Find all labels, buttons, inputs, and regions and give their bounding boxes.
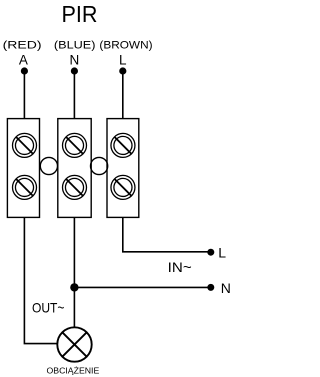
wire terminal 3 to L bbox=[123, 217, 210, 251]
wire A to terminal 1 bbox=[23, 71, 25, 119]
node N dot bbox=[71, 67, 78, 74]
svg-text:PIR: PIR bbox=[62, 1, 98, 27]
wire N to terminal 2 bbox=[73, 71, 75, 119]
wire N out bbox=[74, 286, 210, 288]
screw terminal 2 top bbox=[63, 133, 87, 157]
lamp load symbol bbox=[57, 327, 91, 361]
screw terminal 2 bottom bbox=[63, 175, 87, 199]
svg-text:A: A bbox=[19, 53, 28, 68]
wire terminal 2 down to lamp bbox=[73, 217, 75, 327]
screw terminal 1 bottom bbox=[13, 175, 37, 199]
svg-text:(BLUE): (BLUE) bbox=[54, 39, 96, 51]
terminal N dot bbox=[207, 284, 214, 291]
screw terminal 3 bottom bbox=[111, 175, 135, 199]
svg-text:N: N bbox=[221, 280, 231, 296]
svg-text:(RED): (RED) bbox=[3, 39, 42, 51]
wire terminal 1 to lamp bbox=[24, 217, 57, 343]
wire L to terminal 3 bbox=[122, 71, 124, 119]
strip hole left bbox=[40, 157, 57, 174]
svg-text:(BROWN): (BROWN) bbox=[99, 39, 152, 51]
junction dot N bbox=[70, 283, 78, 291]
svg-text:OUT~: OUT~ bbox=[32, 300, 65, 316]
node L dot bbox=[119, 67, 126, 74]
terminal block body 1 bbox=[7, 119, 39, 218]
terminal L dot bbox=[207, 249, 214, 256]
svg-text:N: N bbox=[70, 53, 80, 68]
svg-text:IN~: IN~ bbox=[168, 259, 192, 275]
svg-text:L: L bbox=[218, 245, 226, 261]
terminal block body 3 bbox=[107, 119, 139, 218]
screw terminal 1 top bbox=[13, 133, 37, 157]
screw terminal 3 top bbox=[111, 133, 135, 157]
node A dot bbox=[21, 67, 28, 74]
terminal block body 2 bbox=[58, 119, 91, 218]
svg-text:L: L bbox=[119, 53, 127, 68]
strip hole right bbox=[91, 157, 108, 174]
svg-text:OBCIĄŻENIE: OBCIĄŻENIE bbox=[47, 366, 100, 376]
